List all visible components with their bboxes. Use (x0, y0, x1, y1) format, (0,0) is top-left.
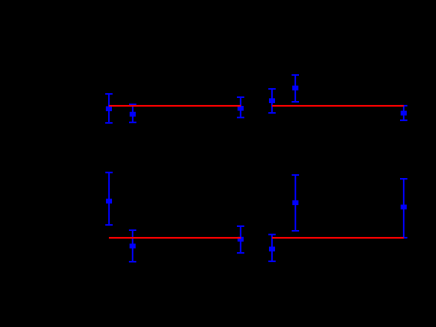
error bar BL3 (237, 225, 244, 253)
red fit line bottom-right (272, 237, 404, 239)
top-right subplot error bars (268, 74, 407, 121)
error bar BL1 (105, 172, 112, 226)
error bar BR3 (400, 178, 407, 239)
error bar TL1 (105, 93, 112, 124)
top-left subplot error bars (105, 93, 244, 124)
error bar TL2 (129, 104, 136, 124)
red fit line top-left (109, 105, 241, 107)
error bar TL3 (237, 96, 244, 118)
red fit line top-right (272, 105, 404, 107)
red fit line bottom-left (109, 237, 241, 239)
bottom-right subplot error bars (268, 174, 407, 262)
error bar TR3 (400, 105, 407, 121)
error bar TR2 (292, 74, 299, 102)
error bar BL2 (129, 229, 136, 262)
error bar TR1 (268, 88, 275, 114)
error bar BR2 (292, 174, 299, 231)
bottom-left subplot error bars (105, 172, 244, 263)
error bar BR1 (268, 234, 275, 262)
